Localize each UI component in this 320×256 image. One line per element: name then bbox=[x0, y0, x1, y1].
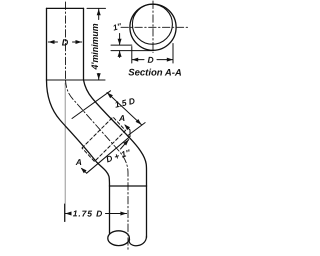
dimension 1.5D line bbox=[107, 93, 142, 125]
top vertical pipe left edge bbox=[46, 8, 48, 80]
arrowhead 1-inch up bbox=[118, 51, 122, 57]
arrowhead D+1 leader bbox=[123, 140, 129, 146]
svg-text:D: D bbox=[62, 37, 69, 47]
arrowhead section D right bbox=[167, 58, 173, 62]
section A-A inner circle bbox=[132, 4, 172, 44]
svg-text:1.5 D: 1.5 D bbox=[114, 96, 136, 110]
svg-text:1.75 D: 1.75 D bbox=[73, 208, 104, 218]
dimension 1.5D extension lines bbox=[72, 91, 145, 136]
pipe centerline through bends bbox=[66, 80, 129, 251]
dimension 1 inch (section) bbox=[111, 34, 154, 58]
svg-text:A: A bbox=[118, 113, 125, 123]
svg-text:D + 1″: D + 1″ bbox=[105, 147, 133, 164]
top pipe joint line with right extension bbox=[47, 79, 106, 81]
dimension D (top pipe) bbox=[48, 41, 81, 43]
svg-text:4′minimum: 4′minimum bbox=[90, 23, 100, 70]
top pipe cap line bbox=[47, 7, 84, 9]
pipe break right curve bbox=[129, 236, 146, 246]
arrowhead section cut top A bbox=[124, 124, 130, 130]
bottom pipe joint line bbox=[110, 185, 147, 187]
dimension 1.75D bbox=[65, 204, 127, 222]
dimension D (section) bbox=[132, 44, 173, 64]
bottom pipe left edge bbox=[109, 186, 111, 234]
grey extension line from top pipe centerline bbox=[64, 83, 66, 222]
pipe break loop bbox=[108, 231, 130, 246]
arrowhead D-dim right bbox=[76, 40, 82, 44]
arrowhead 1.5D lower bbox=[136, 119, 142, 125]
leader for D+1 inch bbox=[121, 140, 129, 150]
dimension 4' minimum bbox=[87, 8, 106, 79]
leader arrow bottom A bbox=[82, 169, 87, 174]
arrowhead 4-min top bbox=[97, 9, 101, 15]
section vertical centerline bbox=[152, 1, 154, 53]
upper bend / diagonal right-inner edge bbox=[84, 80, 147, 186]
arrowhead 1.75D left bbox=[65, 212, 71, 216]
svg-text:D: D bbox=[147, 55, 153, 65]
arrowhead 4-min bottom bbox=[97, 73, 101, 79]
dashed hidden outline of flattened section bbox=[82, 117, 126, 162]
arrowhead 1-inch down bbox=[118, 39, 122, 45]
arrowhead section D left bbox=[132, 58, 138, 62]
upper bend / diagonal left-outer edge bbox=[47, 80, 110, 186]
top vertical pipe right edge bbox=[83, 8, 85, 80]
arrowheads bbox=[48, 9, 173, 216]
section horizontal centerline bbox=[121, 26, 190, 28]
section A-A outer circle bbox=[130, 4, 176, 50]
arrowhead 1.5D upper bbox=[107, 93, 113, 99]
svg-text:Section A-A: Section A-A bbox=[128, 67, 182, 78]
top pipe centerline bbox=[65, 2, 67, 80]
arrowhead section cut bottom A bbox=[81, 168, 87, 174]
leader arrow top A bbox=[125, 125, 130, 136]
arrowhead 1.75D right bbox=[120, 212, 126, 216]
bottom pipe right edge bbox=[146, 186, 148, 238]
svg-text:A: A bbox=[75, 157, 82, 167]
arrowhead D-dim left bbox=[48, 40, 54, 44]
section cut line A-A bbox=[87, 137, 130, 174]
